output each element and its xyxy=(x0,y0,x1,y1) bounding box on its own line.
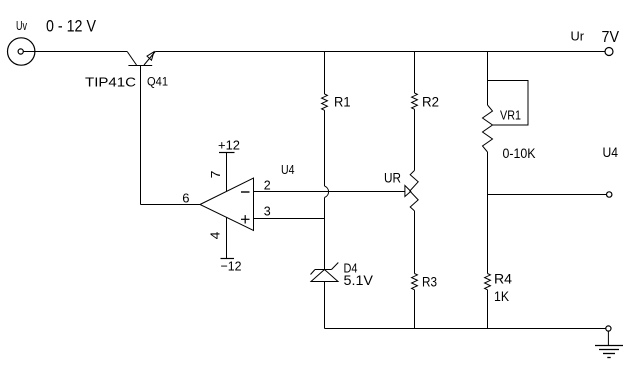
svg-text:Ur: Ur xyxy=(571,29,585,44)
svg-text:7V: 7V xyxy=(602,29,620,46)
wire bottom rail xyxy=(325,328,606,330)
svg-text:+12: +12 xyxy=(218,138,240,153)
svg-text:R2: R2 xyxy=(422,94,439,110)
wire terminal to ground xyxy=(607,331,609,345)
svg-text:1K: 1K xyxy=(494,288,510,304)
wire input to Q41 xyxy=(23,51,127,53)
wire UR to R3 xyxy=(414,211,416,274)
wire U4 tap xyxy=(488,194,607,196)
terminal U4 xyxy=(607,192,612,197)
wire R4 to bottom rail xyxy=(487,290,489,329)
wire R2 branch upper xyxy=(414,52,416,94)
ground xyxy=(595,346,623,358)
svg-text:3: 3 xyxy=(264,205,271,219)
svg-text:TIP41C: TIP41C xyxy=(85,75,136,90)
input terminal Uv xyxy=(8,38,35,65)
wire top rail xyxy=(155,51,605,53)
minus input mark xyxy=(241,191,250,193)
svg-text:U4: U4 xyxy=(603,144,619,160)
svg-text:2: 2 xyxy=(264,179,271,193)
-12 supply bar xyxy=(221,258,235,260)
svg-text:Q41: Q41 xyxy=(147,75,168,89)
trimmer VR1 wiper box xyxy=(488,81,529,126)
pin 6 output wire xyxy=(141,204,201,206)
transistor Q41 xyxy=(127,52,155,66)
svg-text:U4: U4 xyxy=(281,163,295,177)
pin 2 wire xyxy=(254,191,406,193)
svg-text:0-10K: 0-10K xyxy=(503,146,536,161)
resistor R4 xyxy=(485,274,491,290)
wire hop over pin2 wire xyxy=(325,186,329,198)
plus input mark xyxy=(241,215,250,223)
op-amp U4 triangle xyxy=(200,178,254,231)
svg-text:R4: R4 xyxy=(494,271,512,287)
ground terminal circle xyxy=(606,326,611,331)
svg-text:6: 6 xyxy=(182,191,189,206)
svg-text:VR1: VR1 xyxy=(500,108,521,123)
trimmer VR1 zigzag xyxy=(483,105,493,152)
svg-text:UR: UR xyxy=(384,170,401,186)
pin 7 supply wire xyxy=(226,153,228,192)
wire VR1 to R4 xyxy=(487,152,489,274)
pin 4 supply wire xyxy=(226,218,228,259)
svg-text:R1: R1 xyxy=(334,94,351,110)
svg-text:−12: −12 xyxy=(221,259,242,274)
svg-text:Uv: Uv xyxy=(16,19,28,33)
+12 supply bar xyxy=(219,152,235,154)
svg-text:R3: R3 xyxy=(422,274,437,290)
resistor R1 xyxy=(322,94,328,110)
zener diode D4 xyxy=(311,263,339,282)
wire D4 to bottom rail xyxy=(324,282,326,329)
pin 3 wire xyxy=(254,218,325,220)
svg-text:7: 7 xyxy=(208,171,223,179)
svg-text:4: 4 xyxy=(208,232,223,240)
svg-text:5.1V: 5.1V xyxy=(344,272,374,288)
resistor R2 xyxy=(412,93,418,109)
wire hop to zener xyxy=(324,198,326,270)
wire R1 to hop xyxy=(324,110,326,186)
svg-text:0 - 12 V: 0 - 12 V xyxy=(46,18,96,36)
wire R2 to UR xyxy=(414,109,416,170)
wire VR1 branch upper xyxy=(487,52,489,106)
wire R1 branch upper xyxy=(324,52,326,95)
wire Q41 base lead xyxy=(140,66,142,205)
potentiometer UR xyxy=(410,170,418,211)
output terminal Ur xyxy=(605,48,613,56)
resistor R3 xyxy=(412,274,418,290)
wiper arrow of UR xyxy=(405,186,411,197)
wire R3 to bottom rail xyxy=(414,290,416,329)
